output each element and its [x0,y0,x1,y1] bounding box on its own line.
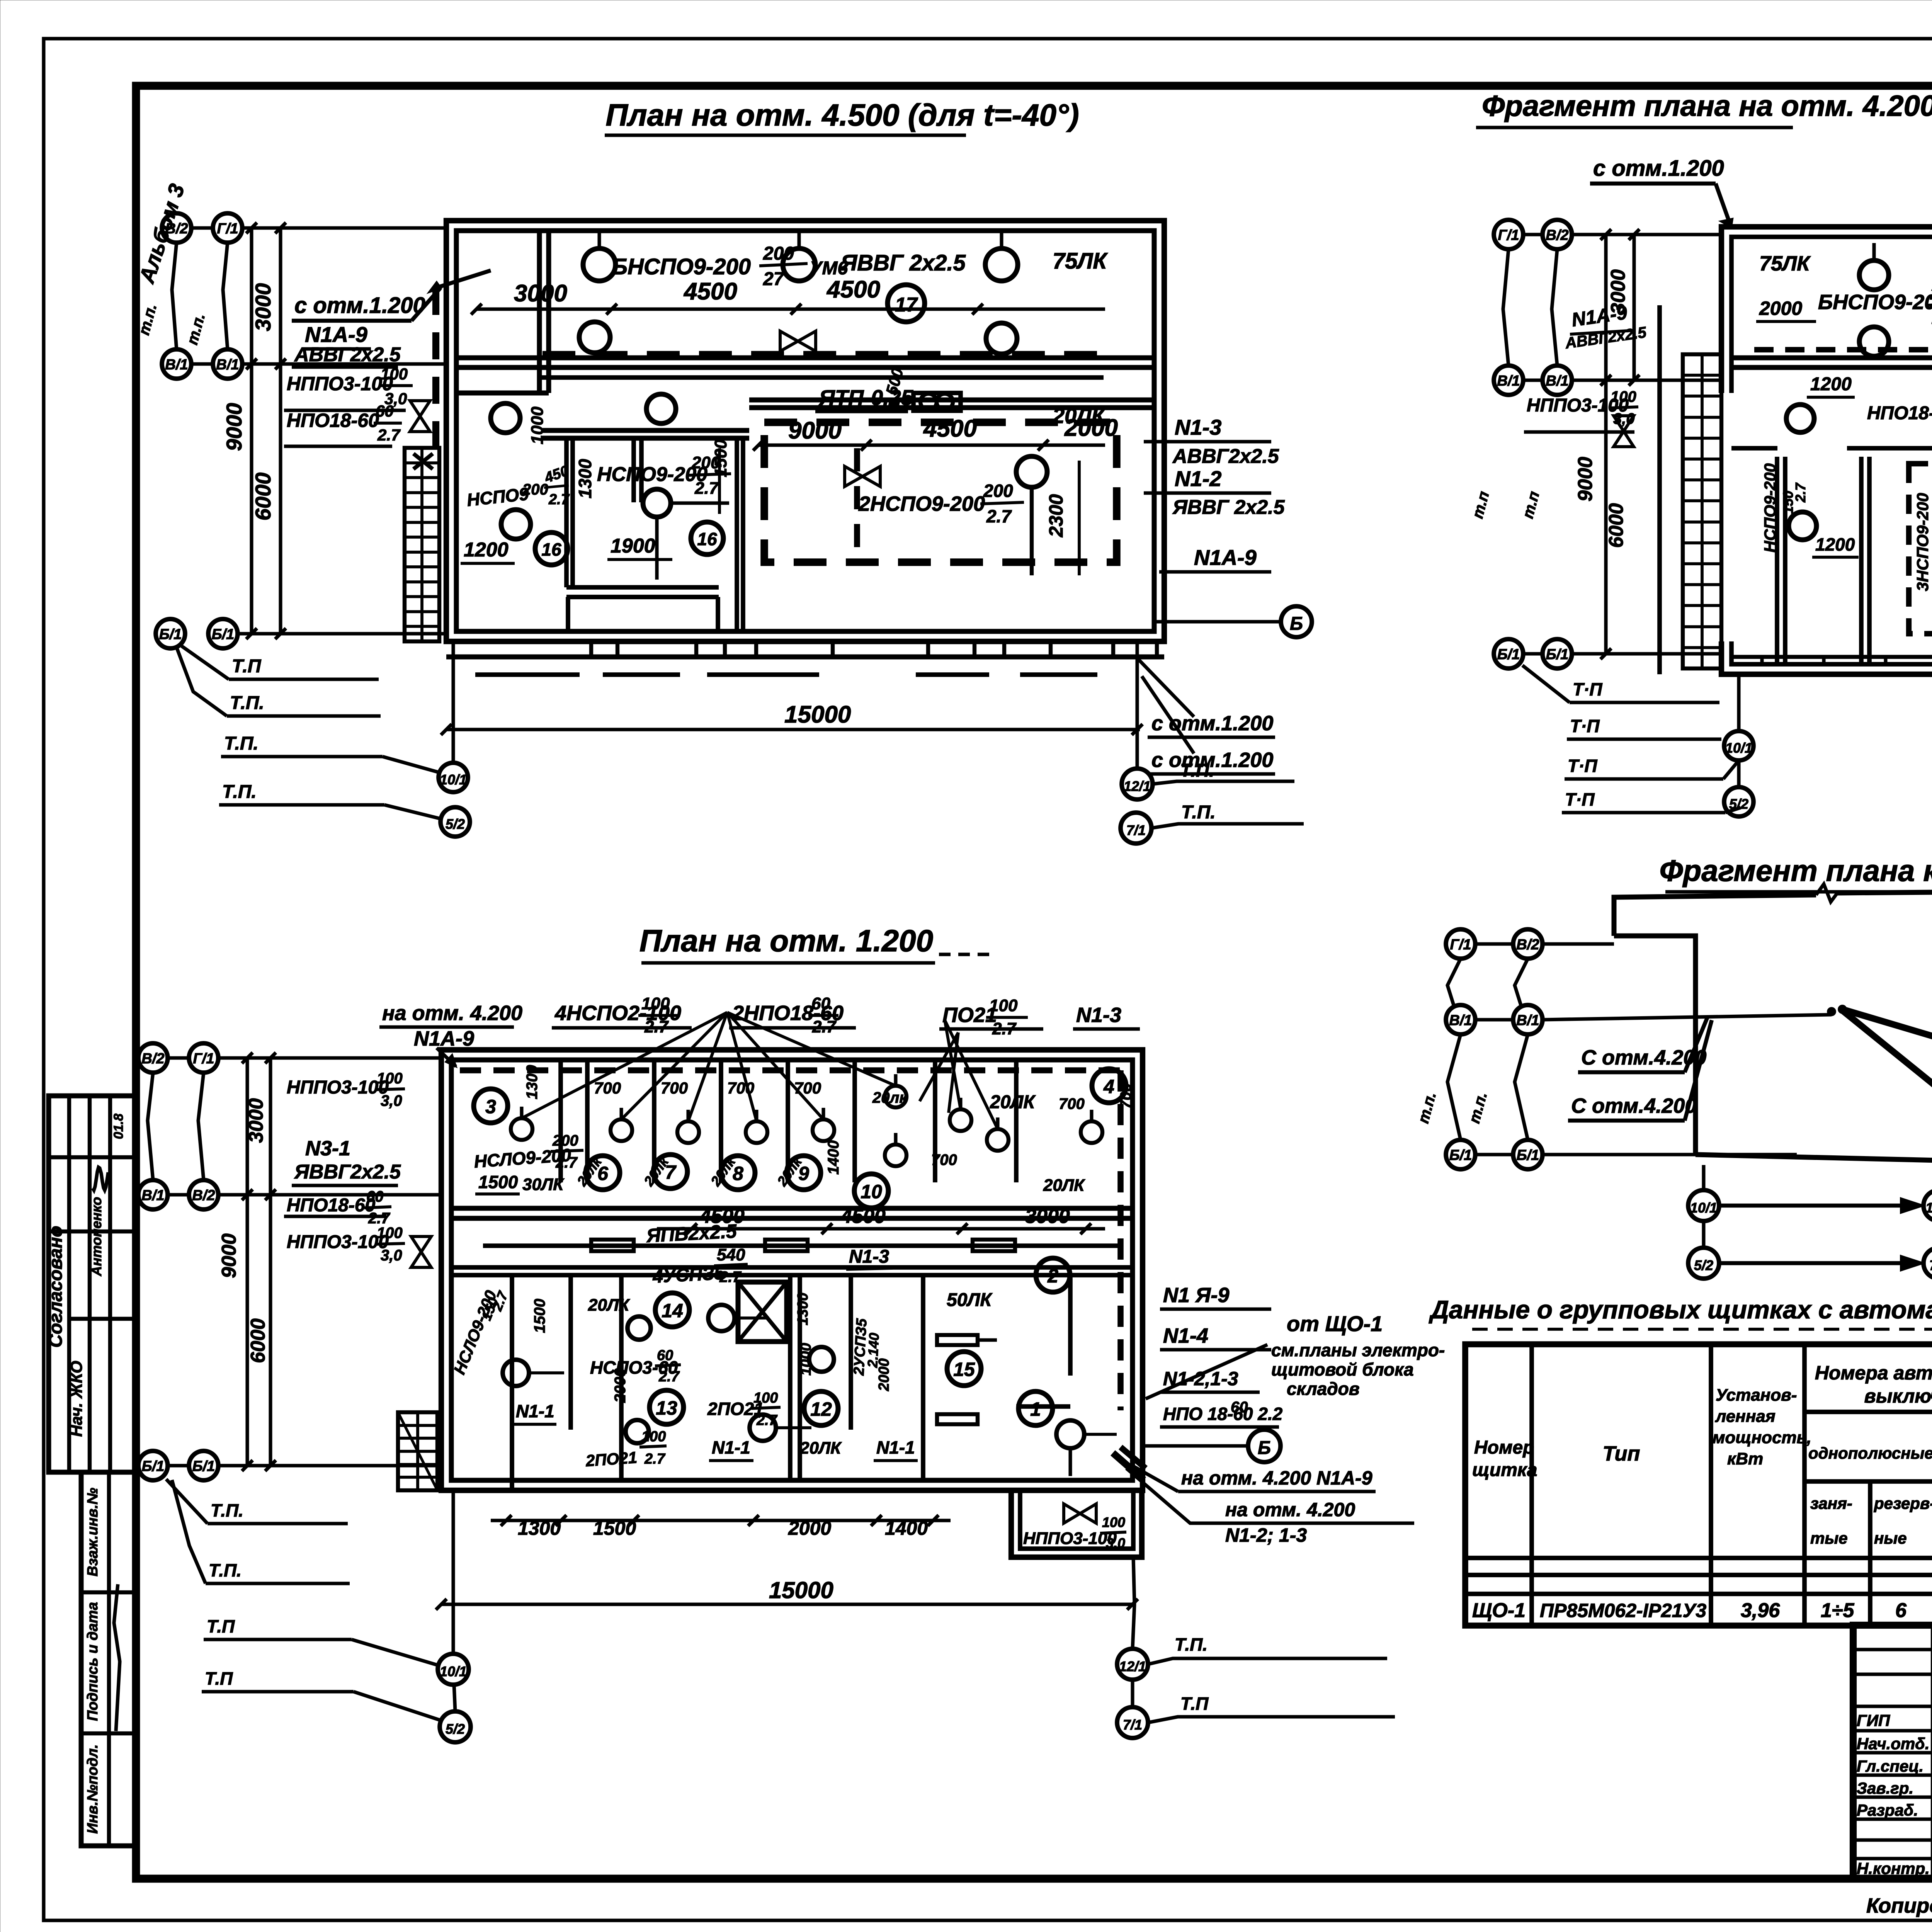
svg-text:ПО21: ПО21 [942,1003,997,1027]
svg-text:1400: 1400 [885,1517,928,1539]
svg-text:16: 16 [541,539,561,560]
axis node Б/1 [189,1451,218,1480]
svg-text:700: 700 [794,1079,821,1097]
axis node В/2 [189,1180,218,1209]
dim 15000 bottom plan [441,1602,1136,1606]
svg-text:Т.П.: Т.П. [209,1560,241,1580]
lamp with stem [950,1109,971,1131]
room 9 [787,1156,821,1190]
lamp with stem [987,1129,1009,1151]
room 12 [804,1391,838,1425]
svg-text:В/2: В/2 [1546,227,1568,243]
axis node Б/1 [1494,639,1523,668]
svg-text:от ЩО-1: от ЩО-1 [1287,1311,1383,1336]
shaft crossed box [738,1282,787,1342]
svg-text:N1-1: N1-1 [712,1437,750,1458]
svg-text:N1-2: N1-2 [1175,466,1221,491]
svg-text:Нач.отδ.: Нач.отδ. [1857,1735,1930,1753]
svg-text:4500: 4500 [840,1205,886,1228]
svg-text:60: 60 [366,1188,384,1205]
roof cable to lamp V2 [1842,1010,1932,1113]
lamp with stem [813,1119,834,1141]
axis node Г/1 [189,1043,218,1073]
svg-text:Т.П.: Т.П. [1175,1634,1207,1655]
svg-text:15: 15 [953,1359,975,1380]
svg-text:1000: 1000 [798,1343,814,1376]
svg-text:тые: тые [1810,1529,1848,1547]
svg-text:НПО18-60: НПО18-60 [1867,403,1932,423]
axis node В/1 [138,1180,168,1209]
building2 corridor bottom wall [451,1265,1133,1270]
svg-text:НППО3-100: НППО3-100 [287,373,393,395]
svg-text:100: 100 [641,1429,666,1445]
dashed riser from stairwell [432,288,439,448]
svg-text:Копировал: Чистоклет: Копировал: Чистоклет [1866,1894,1932,1917]
svg-text:Фрагмент плана на отм. 4.200 (: Фрагмент плана на отм. 4.200 (для t=-20°… [1482,90,1932,122]
svg-text:Т.П: Т.П [207,1616,235,1636]
vertical dims bottom plan [245,1058,249,1466]
svg-text:01.8: 01.8 [111,1114,126,1139]
group table frame [1465,1344,1932,1626]
dim 15000 top plan [446,728,1140,731]
svg-text:3НСПО9-200: 3НСПО9-200 [1913,493,1932,591]
svg-text:ные: ные [1874,1529,1907,1547]
svg-text:2000: 2000 [1759,298,1802,319]
stair hatch [1683,354,1721,668]
svg-text:75ЛК: 75ЛК [1053,248,1108,274]
svg-text:Б/1: Б/1 [142,1458,165,1475]
svg-text:100: 100 [381,365,408,383]
svg-text:Согласовано: Согласовано [46,1226,66,1348]
lamp with stem [885,1086,906,1107]
lamp [503,1360,529,1386]
svg-text:12/1: 12/1 [1925,1200,1932,1216]
svg-text:1500: 1500 [531,1299,548,1333]
svg-text:60: 60 [811,994,830,1013]
svg-text:ГИП: ГИП [1857,1711,1890,1730]
svg-text:щитовой блока: щитовой блока [1271,1359,1414,1379]
svg-text:Т·П: Т·П [1568,756,1597,776]
svg-text:5/2: 5/2 [1694,1257,1713,1273]
corridor cable run [537,375,1104,380]
svg-text:60: 60 [376,402,394,420]
svg-text:с отм.1.200: с отм.1.200 [1593,156,1724,181]
svg-text:5/2: 5/2 [1729,796,1748,812]
lamp [628,1316,651,1340]
lamp with stem [885,1145,906,1166]
svg-text:Установ-: Установ- [1716,1386,1797,1405]
svg-text:N1-3: N1-3 [1175,415,1221,439]
svg-text:Б/1: Б/1 [1497,646,1520,663]
svg-text:В/2: В/2 [141,1051,164,1067]
svg-text:1200: 1200 [1815,534,1855,554]
lamp with stem [1081,1121,1102,1143]
partition B [735,438,739,631]
dashed cable drop in right room [854,448,860,562]
lamp with stem [583,248,616,281]
svg-text:Номер: Номер [1474,1437,1534,1458]
svg-text:АВВГ2х2.5: АВВГ2х2.5 [294,344,401,366]
axis node Б/1 [1513,1140,1543,1169]
axis node Б/1 [156,619,185,648]
svg-text:НПО18-60: НПО18-60 [287,1195,376,1216]
lamp [579,322,610,353]
axis node Б/1 [138,1451,168,1480]
room 13 [650,1390,684,1424]
axis node В/2 [1513,929,1543,959]
lamp [501,510,531,539]
svg-text:15000: 15000 [769,1577,833,1603]
svg-text:20ЛК: 20ЛК [799,1439,842,1458]
svg-text:НСПО9-200: НСПО9-200 [1761,463,1779,553]
svg-text:12/1: 12/1 [1124,778,1151,794]
svg-text:4500: 4500 [683,278,737,305]
svg-text:100: 100 [1611,388,1636,405]
svg-text:10/1: 10/1 [1690,1200,1717,1216]
heavy cable marks corner [1113,1453,1144,1480]
fragment cable dashed top room [1754,347,1932,352]
svg-text:3000: 3000 [514,280,567,307]
axis node В/2 [138,1043,168,1073]
valve symbol vertical [410,401,430,432]
svg-text:Инв.№подл.: Инв.№подл. [85,1744,101,1833]
svg-text:75ЛК: 75ЛК [1759,252,1811,275]
svg-text:N1-2; 1-3: N1-2; 1-3 [1225,1524,1307,1546]
circle 10/1 [439,763,468,792]
svg-text:Б/1: Б/1 [1546,646,1569,663]
fragment building outer wall [1721,227,1932,437]
svg-text:2НСПО9-200: 2НСПО9-200 [858,492,985,515]
svg-text:Т.П.: Т.П. [224,733,259,754]
svg-text:6: 6 [1895,1599,1907,1622]
corridor lower wall right part [749,398,1154,403]
building inner wall line [456,231,1154,631]
fragment vertical dims [1604,235,1607,654]
building2 dashed cable top [460,1067,1121,1073]
svg-text:Подпись и дата: Подпись и дата [85,1602,101,1721]
svg-text:7/1: 7/1 [1123,1717,1142,1733]
svg-text:100: 100 [377,1070,403,1087]
svg-text:10/1: 10/1 [440,1663,467,1679]
fragment corridor wall [1731,446,1777,451]
svg-text:2300: 2300 [1045,494,1067,537]
svg-text:N1А-9: N1А-9 [305,322,367,347]
valve symbol [845,466,880,486]
svg-text:10/1: 10/1 [440,772,467,787]
svg-text:В/1: В/1 [1449,1012,1472,1029]
axis B circle [1281,606,1312,637]
svg-text:N1-1: N1-1 [876,1437,915,1458]
sidebar approval block [49,1096,136,1472]
window sills [475,672,580,677]
svg-text:В/1: В/1 [1516,1012,1539,1029]
building2 outer wall [441,1050,1143,1490]
valve symbol [1064,1504,1096,1523]
axis node В/1 [162,349,191,379]
x valve mark [413,454,433,469]
svg-text:складов: складов [1287,1379,1360,1399]
stair hatch [405,448,439,641]
svg-text:10/1: 10/1 [1725,740,1752,756]
lamp [646,394,676,423]
svg-text:6000: 6000 [1605,503,1628,548]
svg-text:АВВГ2х2.5: АВВГ2х2.5 [1172,445,1279,468]
circle 10/1 bottom [438,1654,469,1685]
svg-text:В/2: В/2 [1516,937,1539,953]
vertical dims top plan [250,228,253,634]
building2 corridor cable [483,1243,1121,1248]
roof cable to lamp V1 [1842,1009,1932,1082]
fragment stair enclosure [1657,305,1662,674]
svg-text:Т·П: Т·П [1573,679,1602,699]
svg-text:мощность,: мощность, [1713,1428,1811,1447]
svg-text:100: 100 [1102,1514,1125,1530]
partition A [564,438,569,587]
svg-text:700: 700 [1059,1095,1085,1112]
roof outline [1614,895,1816,936]
svg-text:однополюсные: однополюсные [1808,1444,1932,1462]
svg-text:1300: 1300 [518,1517,561,1539]
svg-text:Б/1: Б/1 [192,1458,215,1475]
svg-text:Т·П: Т·П [1565,789,1595,810]
svg-text:ленная: ленная [1715,1407,1776,1426]
svg-text:15000: 15000 [784,701,851,728]
svg-text:Т.П.: Т.П. [1181,802,1216,823]
svg-text:С отм.4.200: С отм.4.200 [1571,1094,1696,1117]
svg-text:700: 700 [931,1151,957,1168]
lamp with stem [1859,260,1889,290]
svg-text:N1-3: N1-3 [1076,1003,1121,1027]
svg-text:3000: 3000 [251,283,275,332]
lamp with stem [511,1118,532,1140]
axis node Г/1 [1446,929,1475,959]
room 2 [1036,1258,1070,1292]
svg-text:2.7: 2.7 [986,506,1012,526]
svg-text:Г/1: Г/1 [1450,937,1471,953]
axis node В/2 [1543,220,1572,249]
svg-text:N1 Я-9: N1 Я-9 [1163,1284,1229,1307]
cable dashed run room 17 [543,351,1104,359]
svg-text:В/2: В/2 [165,221,188,237]
svg-text:на отм. 4.200: на отм. 4.200 [382,1002,522,1025]
svg-text:N3-1: N3-1 [305,1137,350,1160]
svg-text:резерв-: резерв- [1874,1494,1932,1512]
circle 5/2 bottom [440,1711,471,1742]
svg-text:см.планы электро-: см.планы электро- [1271,1340,1445,1360]
svg-text:200: 200 [522,481,548,498]
axis B circle bottom [1248,1430,1281,1462]
circle 12/1 bottom [1117,1649,1148,1680]
axis node Г/1 [213,213,242,243]
svg-text:1300: 1300 [524,1065,541,1099]
lamp [626,1420,649,1443]
room 16 circles [535,532,568,565]
svg-text:4: 4 [1103,1076,1114,1097]
svg-text:1200: 1200 [464,539,509,561]
svg-text:540: 540 [717,1245,745,1264]
svg-text:НПО 18-60 2.2: НПО 18-60 2.2 [1163,1404,1283,1424]
svg-text:60: 60 [657,1347,673,1364]
svg-text:ЩО-1: ЩО-1 [1472,1599,1526,1622]
building2 dashed right riser [1117,1070,1124,1410]
svg-text:В/1: В/1 [165,357,188,373]
svg-text:Г/1: Г/1 [1498,227,1519,243]
svg-text:100: 100 [989,996,1018,1015]
svg-text:ЯВВГ 2х2.5: ЯВВГ 2х2.5 [840,250,966,276]
svg-text:План на отм. 1.200: План на отм. 1.200 [639,923,933,958]
svg-text:3,0: 3,0 [381,1247,402,1264]
room 8 [721,1156,755,1190]
small wall segment room16 [631,438,636,502]
room 14 [655,1293,689,1327]
axis node В/2 [162,213,191,243]
svg-text:НППО3-100: НППО3-100 [287,1232,389,1252]
svg-text:4УСПЗ5: 4УСПЗ5 [652,1263,726,1287]
svg-text:НПО18-60: НПО18-60 [287,410,379,431]
svg-text:Взаж.инв.№: Взаж.инв.№ [85,1488,101,1577]
svg-text:7/1: 7/1 [1126,822,1146,838]
svg-text:2000: 2000 [876,1358,892,1391]
roof bottom arrows [1688,1190,1719,1221]
axis node Б/1 [208,619,238,648]
svg-text:щитка: щитка [1472,1460,1537,1480]
svg-text:Б/1: Б/1 [1517,1147,1539,1163]
svg-text:2000: 2000 [612,1368,629,1403]
wall under room 17 [456,355,1154,361]
svg-text:В/1: В/1 [216,357,239,373]
dim row mid [657,1227,1105,1230]
axis node Б/1 [1446,1140,1475,1169]
fragment inner wall [1731,237,1932,437]
svg-text:1300: 1300 [795,1293,811,1325]
axis node Б/1 [1543,639,1572,668]
lamp [1859,327,1889,356]
axis node В/1 [1513,1005,1543,1034]
svg-text:Т.П.: Т.П. [1180,760,1214,781]
svg-text:20ЛК: 20ЛК [588,1296,630,1315]
svg-text:ЯВВГ2х2.5: ЯВВГ2х2.5 [294,1161,401,1183]
svg-text:3000: 3000 [1025,1205,1070,1228]
svg-text:9000: 9000 [222,403,246,451]
roof leader dots [1828,1009,1835,1015]
svg-text:План на отм. 4.500 (для t=-40: План на отм. 4.500 (для t=-40°) [605,98,1079,132]
svg-text:1: 1 [1030,1398,1041,1420]
svg-text:3000: 3000 [245,1098,267,1143]
stair hatch [398,1412,437,1490]
lamp with stem [611,1119,632,1141]
room 4 [1092,1069,1126,1103]
sidebar signature scribble [114,1584,120,1731]
valve symbol [780,331,816,351]
svg-text:ПР85М062-IР21У3: ПР85М062-IР21У3 [1540,1600,1706,1621]
svg-text:700: 700 [1117,1083,1134,1109]
svg-text:20ЛК: 20ЛК [1043,1176,1085,1195]
window band bottom wall [589,641,593,657]
svg-text:9000: 9000 [788,417,842,444]
window band lines [446,655,1164,660]
svg-text:Т.П: Т.П [1180,1694,1209,1714]
svg-text:Т.П.: Т.П. [230,693,264,713]
lamp with stem [746,1121,767,1143]
fragment circle 5/2 [1724,787,1753,816]
svg-text:В/1: В/1 [1497,373,1520,389]
svg-text:200: 200 [552,1132,578,1149]
svg-text:Г/1: Г/1 [193,1051,214,1067]
svg-text:10: 10 [861,1181,882,1202]
svg-text:Б/1: Б/1 [212,626,235,643]
svg-text:Г/1: Г/1 [217,221,238,237]
leader verticals to bottom circles [451,641,455,763]
svg-text:50ЛК: 50ЛК [947,1290,993,1310]
building2 lower partitions [510,1275,514,1490]
svg-text:3,0: 3,0 [381,1092,402,1109]
svg-text:200: 200 [763,243,794,264]
svg-text:27: 27 [763,269,785,289]
room 7 [653,1155,687,1189]
svg-text:В/1: В/1 [141,1187,164,1204]
lamp [708,1305,735,1331]
axis leader lines [191,226,213,230]
svg-text:1300: 1300 [575,459,595,498]
svg-text:2.7: 2.7 [756,1412,778,1429]
svg-text:N1А-9: N1А-9 [1194,545,1257,570]
svg-text:1900: 1900 [611,535,655,557]
lamp [1786,405,1814,432]
group table verticals [1529,1344,1534,1626]
room 15 [947,1352,981,1386]
group table horizontals [1804,1410,1932,1414]
svg-text:2: 2 [1047,1265,1058,1287]
svg-text:100: 100 [753,1390,778,1406]
svg-text:Т·П: Т·П [1570,716,1600,736]
circle 12/1 [1122,769,1153,799]
svg-text:с отм.1.200: с отм.1.200 [294,293,425,318]
svg-text:на отм. 4.200 N1А-9: на отм. 4.200 N1А-9 [1181,1467,1372,1489]
dashed cable loop right room [764,422,1117,562]
dims bottom inside [491,1519,951,1522]
transformer YATP-0.25 [913,393,961,411]
svg-text:БНСПО9-200: БНСПО9-200 [612,254,751,279]
svg-text:100: 100 [641,994,670,1013]
fragment wall under top room [1731,355,1932,361]
svg-text:Б: Б [1258,1438,1271,1458]
room 1 [1019,1391,1053,1425]
lamp [1056,1420,1084,1448]
axis node Г/1 [1494,220,1523,249]
lamp [986,323,1017,354]
fragment dashed loop right room [1909,464,1932,634]
svg-text:3,0: 3,0 [1613,410,1635,427]
svg-text:НППО3-100: НППО3-100 [287,1077,389,1098]
svg-text:Номера автоматических: Номера автоматических [1815,1362,1932,1384]
lamp with stem [985,248,1018,281]
small appendix room bottom right [1011,1493,1142,1557]
lamp with stem [677,1121,699,1143]
svg-text:Нач. ЖКО: Нач. ЖКО [67,1361,85,1437]
dim row lower room [759,443,1105,447]
lamp [1789,512,1816,540]
svg-text:2000: 2000 [788,1517,831,1539]
svg-text:N1-3: N1-3 [849,1247,889,1267]
svg-text:Т.П.: Т.П. [222,782,257,802]
svg-text:Тип: Тип [1603,1442,1640,1465]
svg-text:Б/1: Б/1 [159,626,182,643]
svg-text:Разраδ.: Разраδ. [1857,1801,1918,1819]
lamp [491,403,520,433]
svg-text:3,96: 3,96 [1741,1599,1780,1622]
svg-text:Зав.гр.: Зав.гр. [1857,1779,1913,1797]
svg-text:100: 100 [377,1225,403,1242]
